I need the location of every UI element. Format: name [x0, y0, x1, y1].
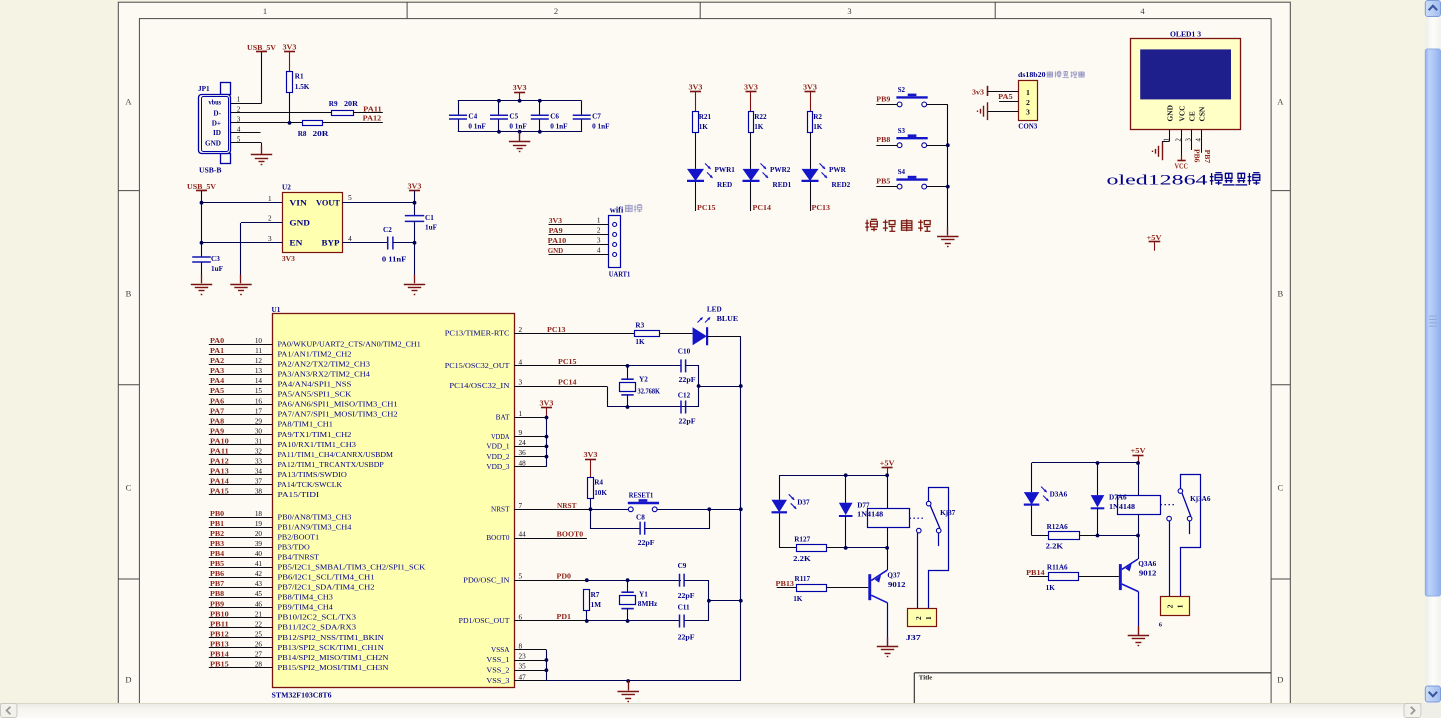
wire — [1201, 129, 1203, 152]
wire — [1138, 592, 1140, 635]
svg-text:PA11/TIM1_CH4/CANRX/USBDM: PA11/TIM1_CH4/CANRX/USBDM — [278, 451, 394, 459]
svg-text:PA13/TIMS/SWDIO: PA13/TIMS/SWDIO — [278, 471, 347, 479]
svg-text:PA7/AN7/SPI1_MOSI/TIM3_CH2: PA7/AN7/SPI1_MOSI/TIM3_CH2 — [278, 411, 399, 419]
svg-text:PA5/AN5/SPI1_SCK: PA5/AN5/SPI1_SCK — [278, 391, 352, 399]
wire — [202, 202, 283, 204]
svg-text:vbus: vbus — [209, 99, 222, 106]
svg-text:PWR: PWR — [829, 166, 847, 174]
power port +5V — [1133, 455, 1144, 457]
relay Kj37 — [868, 509, 910, 528]
svg-text:VOUT: VOUT — [316, 199, 341, 208]
svg-text:PWR2: PWR2 — [770, 166, 791, 174]
wire — [660, 333, 693, 335]
svg-text:3: 3 — [268, 235, 272, 243]
svg-text:36: 36 — [519, 449, 527, 457]
capacitor C3 — [192, 257, 211, 262]
wire — [514, 649, 546, 651]
wire — [323, 122, 383, 124]
wire — [1098, 535, 1139, 537]
capacitor C1 — [405, 216, 424, 222]
wire — [514, 386, 607, 388]
wire — [514, 417, 547, 419]
svg-text:2: 2 — [519, 326, 523, 334]
wire — [628, 365, 682, 367]
svg-text:11: 11 — [255, 347, 262, 355]
svg-text:C1: C1 — [425, 214, 434, 222]
junction — [1096, 534, 1100, 538]
junction — [739, 507, 743, 511]
svg-text:PB1/AN9/TIM3_CH4: PB1/AN9/TIM3_CH4 — [278, 523, 352, 531]
svg-text:PA4/AN4/SPI1_NSS: PA4/AN4/SPI1_NSS — [278, 381, 352, 389]
wire — [810, 133, 812, 169]
junction — [545, 435, 549, 439]
svg-text:PB9/TIM4_CH4: PB9/TIM4_CH4 — [278, 604, 334, 612]
wire — [209, 607, 273, 609]
svg-text:CON3: CON3 — [1018, 122, 1037, 130]
svg-text:PC13/TIMER-RTC: PC13/TIMER-RTC — [445, 330, 510, 338]
svg-text:3V3: 3V3 — [283, 44, 297, 52]
svg-text:D: D — [125, 675, 131, 685]
svg-text:VDD_1: VDD_1 — [486, 443, 510, 451]
wire — [209, 597, 273, 599]
wire — [1097, 463, 1099, 495]
junction — [739, 599, 743, 603]
wire — [750, 182, 752, 211]
svg-text:PB4/TNRST: PB4/TNRST — [278, 554, 320, 562]
junction — [545, 445, 549, 449]
wire — [1138, 536, 1140, 560]
svg-text:3v3: 3v3 — [972, 88, 985, 96]
wire — [810, 182, 812, 211]
svg-text:USB-B: USB-B — [199, 166, 222, 174]
svg-text:3: 3 — [1186, 138, 1193, 142]
svg-text:PB11/I2C2_SDA/RX3: PB11/I2C2_SDA/RX3 — [278, 624, 357, 632]
junction — [545, 416, 549, 420]
svg-text:C2: C2 — [383, 226, 392, 234]
resistor R8 — [303, 121, 323, 126]
svg-text:NRST: NRST — [557, 502, 577, 510]
svg-text:22pF: 22pF — [638, 539, 656, 547]
ground — [240, 275, 242, 284]
wire — [209, 454, 273, 456]
svg-text:PB1: PB1 — [210, 520, 225, 528]
svg-text:D37: D37 — [797, 498, 810, 506]
svg-text:B: B — [126, 288, 132, 298]
wire — [514, 333, 634, 335]
ground — [628, 682, 630, 691]
svg-text:PC14: PC14 — [558, 378, 577, 386]
resistor R1 — [287, 72, 293, 93]
svg-text:40: 40 — [255, 550, 263, 558]
svg-text:ID: ID — [213, 129, 221, 137]
svg-text:PD0/OSC_IN: PD0/OSC_IN — [463, 576, 509, 584]
wire — [1079, 576, 1119, 578]
svg-text:NRST: NRST — [491, 506, 510, 514]
title block — [914, 673, 1271, 703]
wire — [514, 538, 587, 540]
svg-text:PA8/TIM1_CH1: PA8/TIM1_CH1 — [278, 421, 334, 429]
wire — [876, 186, 897, 188]
junction — [1136, 534, 1140, 538]
capacitor C5 — [490, 115, 508, 119]
ground — [519, 133, 521, 142]
svg-text:44: 44 — [519, 531, 527, 539]
svg-text:3V3: 3V3 — [282, 255, 295, 263]
wire — [209, 474, 273, 476]
wire — [846, 547, 887, 549]
svg-text:oled12864: oled12864 — [1107, 173, 1209, 189]
wire — [209, 494, 273, 496]
svg-text:1: 1 — [924, 616, 933, 620]
wire — [393, 242, 415, 244]
svg-text:R4: R4 — [594, 479, 603, 487]
junction — [626, 364, 630, 368]
svg-text:23: 23 — [519, 653, 527, 661]
svg-text:PC13: PC13 — [547, 326, 566, 334]
svg-text:VCC: VCC — [1175, 162, 1189, 170]
LED BLUE — [693, 327, 707, 345]
wire — [514, 670, 546, 672]
svg-text:Kj37: Kj37 — [940, 509, 956, 517]
transistor Q37 — [868, 574, 871, 600]
resistor R3 — [635, 331, 660, 337]
wire — [514, 466, 547, 468]
svg-text:PB14: PB14 — [1026, 569, 1045, 577]
wire — [231, 142, 262, 144]
wire — [458, 131, 582, 133]
svg-text:20R: 20R — [313, 130, 330, 138]
svg-text:1: 1 — [1175, 604, 1184, 608]
svg-text:CE: CE — [1188, 111, 1197, 121]
resistor R127 — [797, 545, 827, 552]
wire — [777, 587, 796, 589]
svg-text:A: A — [1277, 96, 1284, 106]
relay switch — [909, 517, 925, 519]
svg-text:3V3: 3V3 — [549, 217, 563, 225]
svg-text:PC15/OSC32_OUT: PC15/OSC32_OUT — [445, 362, 511, 370]
junction — [497, 99, 501, 103]
ground — [414, 275, 416, 284]
LED PWR2 — [743, 169, 760, 181]
svg-text:0 1nF: 0 1nF — [468, 123, 486, 131]
wire — [209, 587, 273, 589]
ground — [1162, 142, 1164, 160]
svg-text:PB14/SPI2_MISO/TIM1_CH2N: PB14/SPI2_MISO/TIM1_CH2N — [278, 654, 389, 662]
svg-text:0 11nF: 0 11nF — [382, 256, 407, 264]
svg-text:3: 3 — [1026, 108, 1030, 117]
ground — [887, 637, 889, 646]
svg-text:D3A6: D3A6 — [1050, 491, 1068, 499]
wire — [289, 93, 291, 123]
junction — [518, 99, 522, 103]
svg-text:R1: R1 — [295, 73, 304, 81]
svg-text:39: 39 — [255, 540, 263, 548]
junction — [626, 619, 630, 623]
svg-text:PB0: PB0 — [210, 510, 225, 518]
svg-text:1K: 1K — [1046, 584, 1056, 592]
svg-text:VSS_1: VSS_1 — [486, 656, 510, 664]
svg-text:PB7/I2C1_SDA/TIM4_CH2: PB7/I2C1_SDA/TIM4_CH2 — [278, 584, 376, 592]
wire — [549, 254, 609, 256]
junction — [946, 143, 950, 147]
wire — [887, 548, 889, 570]
wire — [740, 336, 742, 681]
svg-text:D: D — [1277, 675, 1283, 685]
svg-text:PB3/TDO: PB3/TDO — [278, 543, 310, 551]
junction — [885, 546, 889, 550]
svg-text:2: 2 — [1175, 138, 1182, 142]
wire — [779, 475, 781, 500]
svg-text:S3: S3 — [898, 127, 906, 135]
wire — [514, 456, 547, 458]
svg-text:BAT: BAT — [496, 414, 511, 422]
wire — [209, 434, 273, 436]
relay Kj3A6 — [1118, 496, 1161, 515]
svg-text:PB4: PB4 — [210, 550, 225, 558]
power port 3V3 — [514, 92, 525, 94]
junction — [626, 679, 630, 683]
svg-text:C: C — [1277, 482, 1283, 492]
svg-text:32.768K: 32.768K — [638, 388, 661, 395]
svg-text:0 1nF: 0 1nF — [509, 123, 527, 131]
power port 3V3 — [746, 91, 757, 93]
wire — [695, 133, 697, 169]
svg-text:UART1: UART1 — [609, 270, 631, 278]
svg-text:C8: C8 — [636, 514, 645, 522]
svg-text:JP1: JP1 — [198, 85, 210, 93]
junction — [585, 578, 589, 582]
diode D7A6 — [1091, 495, 1105, 507]
svg-text:42: 42 — [255, 570, 263, 578]
svg-text:35: 35 — [519, 663, 527, 671]
svg-text:22pF: 22pF — [679, 418, 697, 426]
svg-text:24: 24 — [519, 439, 527, 447]
wire — [514, 680, 628, 682]
svg-text:PB10/I2C2_SCL/TX3: PB10/I2C2_SCL/TX3 — [278, 614, 357, 622]
svg-text:+5V: +5V — [1131, 447, 1147, 455]
svg-text:PA6/AN6/SPI1_MISO/TIM3_CH1: PA6/AN6/SPI1_MISO/TIM3_CH1 — [278, 401, 399, 409]
svg-text:9: 9 — [519, 429, 523, 437]
wire — [938, 533, 940, 546]
svg-text:PB6: PB6 — [1192, 149, 1200, 163]
svg-text:1N4148: 1N4148 — [857, 511, 883, 519]
svg-text:PB5: PB5 — [210, 560, 225, 568]
svg-text:1.5K: 1.5K — [295, 83, 310, 91]
connector J37 — [908, 609, 937, 627]
svg-text:PC13: PC13 — [812, 204, 831, 212]
svg-text:PA9: PA9 — [549, 227, 563, 235]
svg-text:PB15/SPI2_MOSI/TIM1_CH3N: PB15/SPI2_MOSI/TIM1_CH3N — [278, 664, 389, 672]
capacitor C11 — [680, 615, 685, 628]
svg-text:PB5/I2C1_SMBAL/TIM3_CH2/SPI1_S: PB5/I2C1_SMBAL/TIM3_CH2/SPI1_SCK — [278, 564, 426, 572]
ground — [201, 275, 203, 284]
wire — [231, 103, 262, 105]
capacitor C6 — [531, 115, 549, 119]
junction — [200, 201, 204, 205]
svg-text:D+: D+ — [212, 119, 221, 127]
LED PWR1 — [687, 169, 704, 181]
svg-text:C: C — [126, 482, 132, 492]
wire — [209, 667, 273, 669]
wire — [209, 527, 273, 529]
power port VCC — [1181, 155, 1183, 160]
svg-text:5: 5 — [348, 194, 352, 202]
svg-text:PB8/TIM4_CH3: PB8/TIM4_CH3 — [278, 594, 334, 602]
wire — [498, 101, 500, 115]
svg-text:C4: C4 — [468, 113, 477, 121]
capacitor C4 — [449, 115, 467, 119]
crystal Y2 — [627, 366, 629, 379]
wire — [1181, 475, 1201, 597]
wire — [458, 101, 460, 115]
svg-text:0 1nF: 0 1nF — [592, 123, 610, 131]
junction — [844, 473, 848, 477]
junction — [589, 507, 593, 511]
wire — [1169, 129, 1171, 141]
wire — [927, 186, 948, 188]
svg-text:PB6/I2C1_SCL/TIM4_CH1: PB6/I2C1_SCL/TIM4_CH1 — [278, 574, 376, 582]
wire — [1138, 514, 1140, 535]
svg-text:1K: 1K — [754, 123, 764, 131]
svg-text:BYP: BYP — [322, 238, 340, 247]
junction — [626, 578, 630, 582]
svg-text:9012: 9012 — [1139, 570, 1157, 578]
svg-text:EN: EN — [289, 238, 302, 247]
wire — [581, 101, 583, 115]
svg-text:BOOT0: BOOT0 — [557, 530, 584, 538]
svg-text:6: 6 — [1159, 621, 1162, 628]
svg-text:4: 4 — [1196, 138, 1203, 142]
svg-text:R7: R7 — [591, 591, 600, 599]
svg-text:C10: C10 — [678, 348, 691, 356]
svg-text:3: 3 — [597, 237, 601, 245]
resistor R2 — [808, 112, 813, 133]
svg-text:PA1/AN1/TIM2_CH2: PA1/AN1/TIM2_CH2 — [278, 351, 352, 359]
junction — [538, 99, 542, 103]
connector CON3 — [1019, 81, 1038, 121]
svg-text:VSSA: VSSA — [491, 646, 510, 654]
svg-text:B: B — [1277, 288, 1283, 298]
svg-text:19: 19 — [255, 520, 263, 528]
svg-text:D-: D- — [213, 110, 221, 118]
wire — [887, 603, 889, 646]
wire — [231, 112, 332, 114]
diode D77 — [839, 503, 853, 515]
svg-text:3V3: 3V3 — [540, 400, 554, 408]
MCU U1 — [255, 306, 526, 700]
wire — [209, 647, 273, 649]
transistor Q3A6 — [1119, 564, 1122, 590]
svg-text:+5V: +5V — [880, 460, 896, 468]
relay switch — [1160, 504, 1176, 506]
wire — [591, 510, 641, 529]
svg-text:PC15: PC15 — [558, 358, 577, 366]
wire — [231, 132, 261, 134]
capacitor C7 — [573, 115, 591, 119]
wire — [587, 580, 681, 582]
wire — [414, 221, 416, 276]
svg-text:PA1: PA1 — [210, 347, 225, 355]
svg-text:R127: R127 — [794, 535, 810, 543]
svg-text:PB6: PB6 — [210, 570, 225, 578]
wire — [947, 104, 949, 234]
svg-text:PB0/AN8/TIM3_CH3: PB0/AN8/TIM3_CH3 — [278, 513, 352, 521]
svg-text:PB12/SPI2_NSS/TIM1_BKIN: PB12/SPI2_NSS/TIM1_BKIN — [278, 634, 384, 642]
wire — [209, 557, 273, 559]
wire — [827, 547, 846, 549]
wire — [929, 488, 949, 609]
svg-text:1: 1 — [519, 410, 523, 418]
wire — [209, 364, 273, 366]
wire — [209, 484, 273, 486]
svg-text:20: 20 — [255, 530, 263, 538]
wire — [845, 475, 847, 503]
svg-text:R21: R21 — [699, 113, 712, 121]
capacitor C8 — [640, 522, 645, 535]
svg-text:0 1nF: 0 1nF — [550, 123, 568, 131]
svg-text:R22: R22 — [754, 113, 767, 121]
junction — [697, 384, 701, 388]
svg-text:1: 1 — [1026, 88, 1030, 97]
wire — [826, 587, 868, 589]
svg-text:1N4148: 1N4148 — [1109, 503, 1135, 511]
svg-text:20R: 20R — [344, 100, 359, 108]
svg-text:OLED1 3: OLED1 3 — [1170, 31, 1201, 39]
wire — [209, 344, 273, 346]
junction — [538, 130, 542, 134]
svg-text:3V3: 3V3 — [689, 84, 703, 92]
junction — [707, 507, 711, 511]
junction — [707, 599, 711, 603]
svg-text:1uF: 1uF — [425, 224, 438, 232]
junction — [518, 130, 522, 134]
junction — [413, 201, 417, 205]
resistor R7 — [584, 590, 590, 611]
svg-text:PA15/TIDI: PA15/TIDI — [278, 491, 320, 499]
svg-text:C5: C5 — [509, 113, 518, 121]
wire — [549, 234, 609, 236]
svg-text:PB3: PB3 — [210, 540, 225, 548]
svg-text:18: 18 — [255, 510, 263, 518]
wire — [999, 101, 1018, 103]
wire — [514, 509, 629, 511]
svg-text:PB7: PB7 — [1203, 150, 1211, 164]
svg-text:PA12: PA12 — [363, 114, 382, 122]
svg-text:C9: C9 — [678, 562, 687, 570]
wire — [608, 387, 699, 407]
connector J3A6 — [1161, 597, 1190, 616]
wire — [342, 202, 414, 204]
wire — [887, 527, 889, 548]
wire — [591, 509, 629, 511]
wire — [209, 577, 273, 579]
power port 3V3 — [805, 91, 816, 93]
svg-text:22pF: 22pF — [678, 592, 696, 600]
wire — [686, 366, 741, 387]
wire — [514, 660, 546, 662]
LED D3A6 — [1024, 492, 1040, 505]
svg-text:PA5: PA5 — [998, 93, 1013, 101]
wire — [514, 580, 587, 582]
wire — [779, 475, 887, 477]
svg-text:A: A — [125, 96, 132, 106]
resistor R117 — [797, 585, 827, 592]
wire — [586, 611, 588, 621]
resistor R9 — [332, 111, 354, 116]
junction — [1096, 461, 1100, 465]
svg-text:BOOT0: BOOT0 — [486, 534, 510, 542]
junction — [626, 405, 630, 409]
